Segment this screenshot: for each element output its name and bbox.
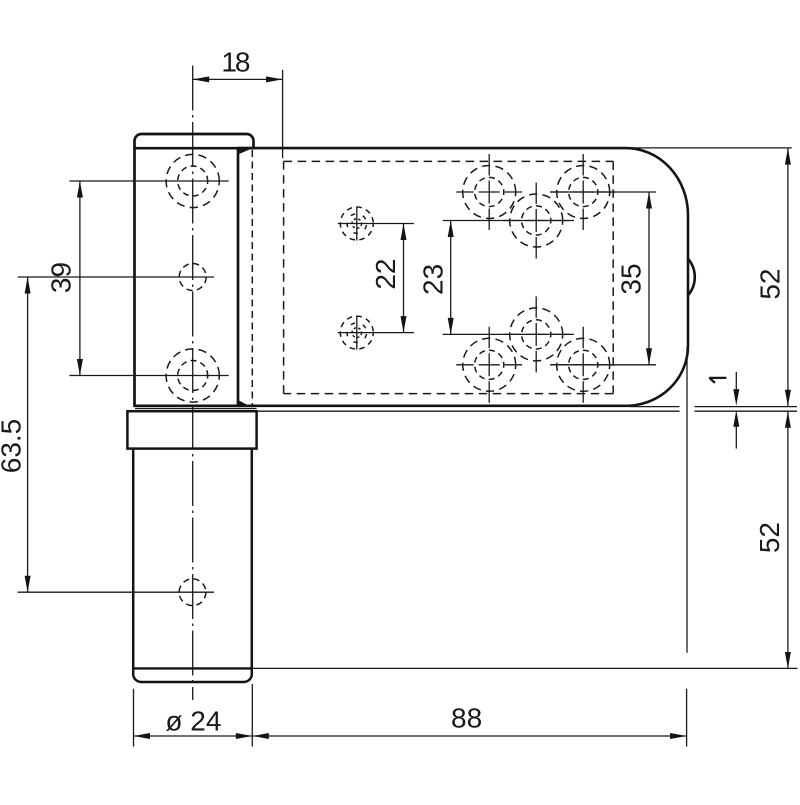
barrel hole bottom xyxy=(166,349,219,402)
dimension 52 top xyxy=(787,148,789,406)
arrow 88 left xyxy=(252,733,268,739)
centerline through lower pin hole / ext 63.5 bottom xyxy=(18,591,214,593)
arrow 39 top xyxy=(77,181,83,198)
arrow 52top top xyxy=(785,148,791,165)
lower barrel pin hole xyxy=(179,579,206,606)
plate hole top-right xyxy=(550,154,616,230)
arrow 52bot bottom xyxy=(785,652,791,669)
arrow 63.5 top xyxy=(25,277,31,294)
dimension 18 xyxy=(193,70,283,158)
arrow 52bot top xyxy=(785,411,791,428)
lower barrel end line xyxy=(133,667,252,669)
dimension 35 xyxy=(648,192,650,365)
dimension 22 xyxy=(403,224,405,333)
arrow 22 bottom xyxy=(401,316,407,333)
barrel vertical centerline xyxy=(192,66,194,701)
dimension 23 xyxy=(450,221,452,335)
dimension 1 lower tail xyxy=(735,424,737,449)
ext line diameter right xyxy=(251,684,253,747)
arrow 39 bottom xyxy=(77,359,83,376)
plate top edge extension line xyxy=(622,147,792,149)
svg-text:52: 52 xyxy=(755,269,786,300)
plate hole bottom-left xyxy=(456,327,522,403)
arrow 35 bottom xyxy=(646,348,652,365)
centerline small hole lower / ext 22 bottom xyxy=(338,332,414,334)
centerline through barrel middle hole / ext 63.5 top xyxy=(18,276,214,278)
centerline small hole upper / ext 22 top xyxy=(338,223,414,225)
hidden edge line inside plate xyxy=(251,150,253,405)
svg-text:35: 35 xyxy=(616,263,647,294)
label 1 (drawn as strokes, DIN style digit rotated) xyxy=(709,378,726,383)
arrow 88 right xyxy=(670,733,687,739)
collar top line over collar xyxy=(135,408,257,410)
arrow 18 right xyxy=(266,76,283,82)
svg-text:63.5: 63.5 xyxy=(0,419,26,474)
ext line from plate right edge down xyxy=(686,347,688,653)
barrel hole top xyxy=(166,154,219,207)
arrow 23 top xyxy=(448,221,454,238)
arrow 52top bottom xyxy=(785,390,791,407)
arrow 23 bottom xyxy=(448,318,454,335)
pin bump on right edge xyxy=(688,259,695,296)
centerline bottom-middle hole / ext 23 bottom xyxy=(443,333,574,335)
svg-text:18: 18 xyxy=(221,46,250,77)
arrow 63.5 bottom xyxy=(25,576,31,593)
centerline bottom-right hole / ext 35 bottom xyxy=(550,364,656,366)
collar top extension line xyxy=(257,410,797,412)
barrel hole middle xyxy=(179,264,206,291)
lower barrel end extension line xyxy=(252,667,798,669)
ext line diameter left xyxy=(133,689,135,747)
centerline top-right hole / ext 35 top xyxy=(550,191,656,193)
svg-text:ø 24: ø 24 xyxy=(165,705,221,736)
dimension 52 bottom xyxy=(787,411,789,668)
fillet wedge top (plate meets barrel) xyxy=(237,149,250,155)
plate hole top-left xyxy=(456,154,522,230)
svg-text:39: 39 xyxy=(46,262,77,293)
arrow 1 lower (points up) xyxy=(733,410,739,427)
svg-text:88: 88 xyxy=(451,703,482,734)
dimension 1 xyxy=(735,372,737,392)
dashed sash overlap rectangle xyxy=(284,161,614,393)
fillet wedge bottom (plate meets barrel) xyxy=(237,400,247,405)
svg-text:22: 22 xyxy=(370,259,401,290)
arrow 18 left xyxy=(193,76,210,82)
svg-text:52: 52 xyxy=(754,522,785,553)
arrow dia24 right xyxy=(236,733,253,739)
svg-text:23: 23 xyxy=(418,264,449,295)
arrow 35 top xyxy=(646,192,652,209)
centerline through barrel bottom hole / ext 39 bottom xyxy=(69,375,228,377)
arrow dia24 left xyxy=(134,733,151,739)
dimension line diameter 24 and 88 xyxy=(134,735,687,737)
small hole upper xyxy=(340,207,373,241)
arrow 1 upper (points down) xyxy=(733,389,739,406)
plate bottom edge extension line xyxy=(630,406,797,408)
upper barrel body xyxy=(133,148,239,406)
ext line 88 right xyxy=(686,689,688,747)
plate hole top-middle xyxy=(503,183,569,259)
dimension 39 xyxy=(79,181,81,376)
collar ring xyxy=(127,411,256,448)
centerline top-middle hole / ext 23 top xyxy=(443,220,574,222)
arrow 22 top xyxy=(401,224,407,241)
centerline through barrel top hole / ext 39 top xyxy=(69,180,228,182)
leaf plate outline xyxy=(238,148,688,406)
small hole lower xyxy=(340,316,373,350)
plate hole bottom-middle xyxy=(503,296,569,372)
plate hole bottom-right xyxy=(550,327,616,403)
lower barrel body xyxy=(133,449,252,682)
hinge cap (top of barrel) xyxy=(135,134,254,148)
dimension 63.5 xyxy=(27,277,29,592)
